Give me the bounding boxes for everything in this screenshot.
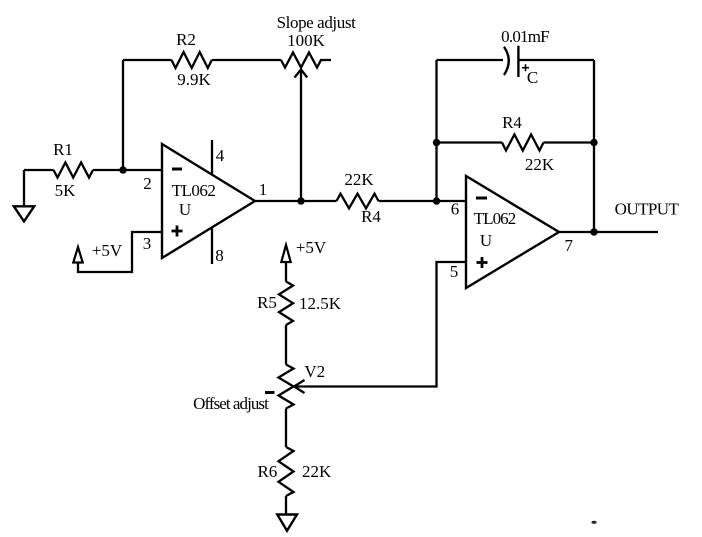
U1 inverting input minus sign [172,168,182,171]
U2 non-inverting input plus sign [477,257,488,268]
svg-text:22K: 22K [525,155,555,174]
svg-text:U: U [480,231,492,250]
svg-text:3: 3 [143,234,152,253]
wire feedback top left [123,59,172,61]
wire 22K to U2 pin 6 [379,200,467,202]
svg-text:+5V: +5V [92,241,123,260]
wire node A up to feedback [122,60,124,170]
capacitor C straight plate [517,46,519,77]
U1 pin 8 power stub [211,227,213,264]
svg-text:8: 8 [215,246,224,265]
wire R6 to ground [285,496,287,515]
svg-text:1: 1 [259,180,268,199]
svg-text:R1: R1 [53,140,73,159]
svg-text:R4: R4 [502,113,522,132]
wire node D to feedback R4 [437,141,503,143]
wire U2 output [559,231,658,233]
wire R2 to potentiometer [212,59,281,61]
node B junction dot [297,197,304,204]
svg-text:9.9K: 9.9K [177,70,211,89]
svg-text:7: 7 [564,236,573,255]
svg-text:C: C [527,68,538,87]
svg-text:5K: 5K [55,181,77,200]
ground GND1 (left) [14,170,34,221]
V2 wiper arrowhead [294,380,305,393]
node C junction dot [433,197,440,204]
svg-text:R6: R6 [257,462,277,481]
svg-text:R2: R2 [176,30,196,49]
wire U1 pin 3 to +5V arrow [78,232,162,272]
svg-text:+5V: +5V [296,238,327,257]
Slope adjust wiper arrow and wire to node B [295,70,308,202]
potentiometer V2 body [279,365,294,409]
svg-text:100K: 100K [287,31,326,50]
svg-text:V2: V2 [304,362,325,381]
svg-text:12.5K: 12.5K [299,294,342,313]
resistor R2 [172,52,212,68]
svg-text:R4: R4 [361,207,381,226]
wire node C up to feedback network [435,60,437,201]
ground GND2 (bottom) [277,515,297,531]
svg-text:Offset adjust: Offset adjust [193,394,269,413]
op-amp U1 TL062 triangle [162,144,255,258]
wire V2 to R6 [285,409,287,448]
svg-text:U: U [179,200,191,219]
wire to capacitor C left plate [437,59,504,61]
wire right vertical feedback [593,60,595,232]
svg-text:0.01mF: 0.01mF [501,27,549,46]
wire capacitor right plate to right vertical [518,59,594,61]
svg-text:R5: R5 [257,293,277,312]
svg-text:22K: 22K [344,170,374,189]
wire +5V arrow to R5 [285,262,287,282]
resistor R5 [279,282,293,326]
U1 non-inverting input plus sign [172,226,183,237]
Offset adjust tick mark [265,391,275,394]
node D junction dot [433,139,440,146]
wire R5 to V2 [285,325,287,365]
resistor R4 (feedback) [502,135,544,151]
svg-text:2: 2 [143,174,152,193]
resistor R6 [279,447,294,496]
wire feedback R4 to right vertical [544,141,595,143]
svg-text:6: 6 [451,200,460,219]
svg-text:TL062: TL062 [172,181,216,200]
wire U1 output to 22K [255,200,337,202]
svg-text:OUTPUT: OUTPUT [615,200,680,219]
potentiometer Slope adjust 100K body [281,53,331,68]
node E junction dot [590,139,597,146]
svg-text:5: 5 [450,262,459,281]
resistor R1 [24,163,123,178]
svg-text:Slope adjust: Slope adjust [277,13,356,32]
wire node A to U1 pin 2 [123,169,162,171]
svg-text:TL062: TL062 [474,209,516,228]
wire U2 pin 5 to V2 wiper [296,262,466,387]
capacitor C curved plate [504,47,509,75]
U1 pin 4 power stub [211,140,213,175]
+5V supply arrow (middle) [281,245,290,262]
+5V supply arrow (left) [73,247,82,263]
op-amp U2 TL062 triangle [466,176,559,288]
svg-text:22K: 22K [302,462,332,481]
output node junction dot [590,228,597,235]
svg-text:4: 4 [216,146,225,165]
capacitor polarity plus mark [522,64,529,71]
U2 inverting input minus sign [476,197,487,200]
resistor R4 22K (series) [337,194,379,209]
node A junction dot [119,166,126,173]
